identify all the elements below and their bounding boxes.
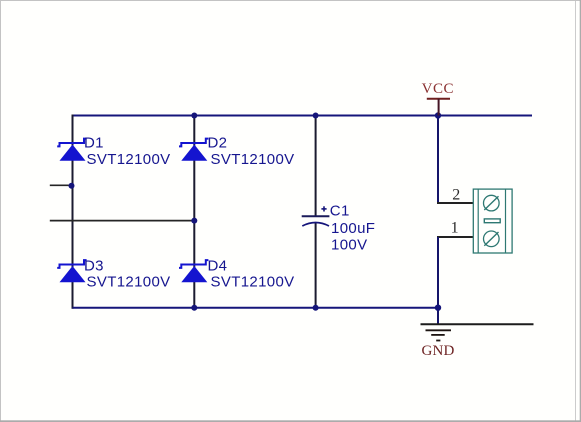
- svg-text:GND: GND: [421, 343, 454, 359]
- svg-text:100uF: 100uF: [331, 220, 375, 237]
- capacitor C1: [302, 203, 376, 254]
- wire pin1 horizontal: [437, 236, 473, 238]
- sheet edge line: [575, 0, 577, 422]
- diode D4: [179, 257, 295, 290]
- svg-text:D4: D4: [208, 257, 228, 274]
- wire pin2 horizontal: [437, 202, 473, 204]
- wire capacitor branch lower: [315, 223, 317, 309]
- wire left vertical: [72, 115, 74, 309]
- svg-text:1: 1: [451, 219, 459, 236]
- wire bottom rail: [73, 307, 439, 309]
- node junction top VCC: [435, 112, 441, 118]
- wire AC input stub upper: [50, 184, 72, 186]
- svg-text:D2: D2: [208, 134, 228, 151]
- wire top rail: [73, 115, 533, 117]
- node junction stub upper: [69, 183, 75, 189]
- diode D1: [57, 134, 170, 168]
- node junction stub lower: [191, 218, 197, 224]
- svg-text:2: 2: [452, 186, 460, 203]
- connector J1 terminal block: [451, 186, 512, 253]
- wire D2-D4 vertical: [193, 115, 195, 309]
- ground: [421, 330, 454, 359]
- svg-text:D3: D3: [84, 257, 104, 274]
- node junction top D2: [191, 113, 197, 119]
- svg-text:SVT12100V: SVT12100V: [87, 151, 171, 168]
- svg-text:SVT12100V: SVT12100V: [87, 273, 171, 290]
- diode D3: [57, 257, 170, 290]
- svg-text:VCC: VCC: [422, 81, 454, 97]
- svg-text:SVT12100V: SVT12100V: [211, 273, 295, 290]
- diode D2: [179, 134, 295, 168]
- node junction bottom D2: [191, 305, 197, 311]
- node junction bottom GND: [435, 305, 441, 311]
- svg-text:C1: C1: [330, 203, 350, 220]
- svg-text:100V: 100V: [331, 236, 367, 253]
- wire right vertical upper: [437, 115, 439, 204]
- svg-text:D1: D1: [84, 134, 104, 151]
- node junction top C1: [313, 113, 319, 119]
- wire AC input stub lower: [50, 220, 195, 222]
- wire capacitor branch upper: [315, 115, 317, 217]
- wire ground rail: [421, 323, 534, 325]
- svg-text:SVT12100V: SVT12100V: [211, 151, 295, 168]
- wire right vertical lower: [437, 237, 439, 324]
- node junction bottom C1: [313, 305, 319, 311]
- power port VCC: [422, 81, 454, 115]
